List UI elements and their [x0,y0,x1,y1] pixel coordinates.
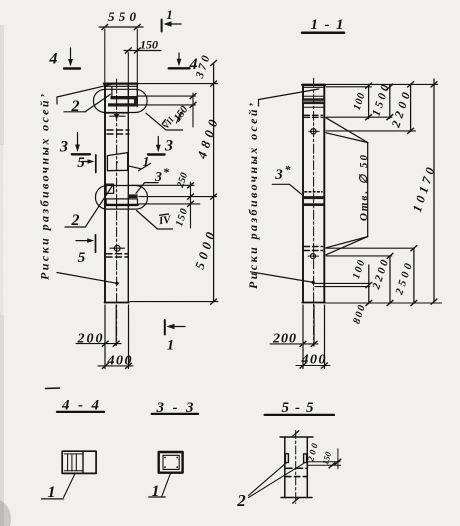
svg-text:*: * [163,165,170,179]
svg-text:4: 4 [49,51,58,68]
svg-text:3: 3 [154,169,162,184]
svg-text:4: 4 [189,56,198,73]
svg-text:400: 400 [107,354,132,369]
svg-text:5 - 5: 5 - 5 [282,400,315,416]
svg-text:5: 5 [78,250,86,266]
svg-text:3: 3 [59,139,68,156]
svg-text:1: 1 [48,484,56,501]
svg-text:1: 1 [143,154,150,169]
svg-text:150: 150 [140,38,158,52]
svg-text:200: 200 [272,332,296,347]
svg-text:550: 550 [108,9,137,24]
svg-text:2: 2 [71,98,80,115]
svg-text:3: 3 [164,138,173,155]
svg-text:1: 1 [152,483,160,500]
svg-text:1 - 1: 1 - 1 [311,17,344,33]
svg-text:1: 1 [166,7,173,22]
svg-text:3: 3 [274,167,283,183]
svg-text:5: 5 [77,155,85,171]
svg-text:*: * [285,163,292,177]
svg-text:Риски разбивочных осей’: Риски разбивочных осей’ [246,103,260,289]
svg-text:2: 2 [236,491,246,510]
svg-text:Отв. ∅ 50: Отв. ∅ 50 [358,155,370,222]
svg-text:Риски разбивочных осей’: Риски разбивочных осей’ [38,94,52,280]
svg-text:1: 1 [167,338,175,354]
svg-text:400: 400 [301,353,326,368]
svg-text:200: 200 [77,332,103,347]
